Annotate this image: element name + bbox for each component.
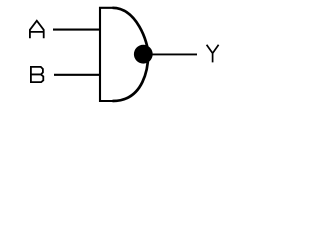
wire A input <box>53 29 100 31</box>
output bubble (filled dot) <box>134 45 153 64</box>
gate U1 NAND body <box>100 8 114 101</box>
node A <box>30 21 44 39</box>
gate U1 curved front <box>113 8 149 101</box>
node Y <box>207 45 219 63</box>
node B <box>31 66 43 83</box>
wire Y output <box>150 53 197 55</box>
wire B input <box>54 74 100 76</box>
